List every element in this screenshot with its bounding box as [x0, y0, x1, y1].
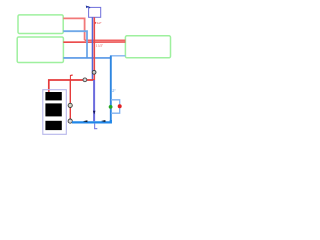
- wire hot main upper run: [85, 39, 126, 41]
- valve dot on hot riser: [92, 70, 96, 74]
- label 1/2" with flow arrow: [95, 22, 97, 24]
- wire hot outlet from tank T2: [63, 41, 125, 43]
- flow arrow down on return drop: [93, 111, 96, 115]
- green indicator dot: [109, 105, 113, 109]
- flow arrow left on bottom main 1: [83, 120, 87, 122]
- wire boiler hot header: [49, 80, 95, 92]
- relief valve stub: [70, 75, 72, 79]
- wire hot riser to expansion box: [93, 17, 95, 80]
- tank T1 top-left green rectangle: [18, 15, 63, 34]
- circulation arrow icon: [87, 7, 90, 9]
- aquastat circle on hot header: [83, 78, 87, 82]
- tank T2 left green rectangle: [17, 37, 63, 63]
- boiler section 3: [45, 121, 61, 130]
- svg-text:1 1/2": 1 1/2": [96, 43, 103, 47]
- wire bottom cold main: [72, 120, 111, 122]
- wire hot outlet from tank T1: [63, 18, 84, 40]
- expansion tank box at top: [89, 7, 101, 17]
- boiler section 2: [45, 103, 61, 116]
- check valve circle lower: [68, 119, 72, 123]
- boiler cabinet outline: [43, 90, 67, 135]
- wire boiler return drop: [69, 80, 71, 121]
- tank T3 right green rectangle: [125, 36, 170, 58]
- wire cold riser from expansion box: [91, 17, 93, 80]
- red indicator dot: [118, 104, 122, 108]
- wire cold branch to tank T3: [110, 55, 125, 57]
- drain stub below main: [95, 124, 98, 129]
- bypass loop: [111, 100, 120, 113]
- flow arrow left on bottom main 2: [101, 120, 105, 122]
- circulator pump circle upper: [68, 103, 72, 107]
- wire cold drop right vertical: [110, 56, 112, 122]
- svg-text:1/2": 1/2": [97, 21, 102, 25]
- wire cold outlet from tank T1: [63, 31, 87, 58]
- wire cold main lower run: [63, 57, 111, 59]
- boiler section 1: [45, 92, 61, 100]
- wire combined return drop violet: [93, 80, 95, 121]
